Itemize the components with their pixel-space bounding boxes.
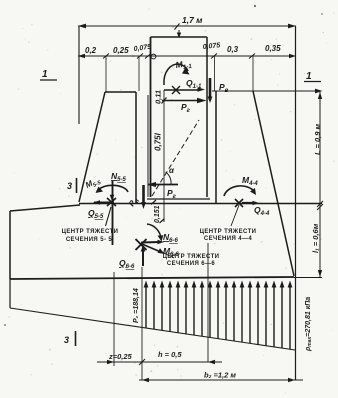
centroid axis x=164 — [163, 90, 165, 222]
right dimension vertical line — [319, 92, 321, 277]
extension 253 to right wall corner — [252, 56, 254, 91]
force Pg bottom arrow (head left) — [148, 184, 178, 186]
alpha arc — [166, 172, 172, 184]
force M6-6 diagonal arrow — [142, 244, 162, 253]
dim line b2 y=380 — [139, 379, 303, 381]
svg-text:0,3: 0,3 — [227, 45, 239, 54]
force Pv top down arrow — [209, 78, 212, 100]
moment M6-6 arc — [147, 224, 161, 239]
arrow into 208 — [208, 360, 215, 364]
svg-text:1,7 м: 1,7 м — [182, 15, 203, 25]
extension 214 to right wall — [214, 56, 216, 91]
arrow b2 left — [142, 378, 149, 382]
section mark 3 top — [67, 178, 77, 193]
dim line z h y=362 — [97, 361, 222, 363]
footing bottom edge — [10, 277, 294, 279]
right wall top / section line y=91 — [212, 90, 321, 92]
force N6-6 arrow right — [141, 241, 160, 244]
svg-text:0,75l: 0,75l — [154, 132, 163, 151]
left wall slant edge — [79, 92, 105, 202]
extension line right x=295 full height — [295, 26, 297, 380]
force Q4-4 arrow right — [242, 202, 256, 204]
extension x=114 — [113, 272, 115, 366]
svg-text:1: 1 — [306, 71, 312, 82]
svg-text:3: 3 — [64, 335, 69, 345]
svg-text:0,35: 0,35 — [265, 44, 281, 53]
force Q5-5 arrow head left — [94, 202, 114, 204]
arrow b2 right — [288, 378, 295, 382]
svg-text:0,25: 0,25 — [113, 46, 129, 55]
section 5-5 centroid X — [107, 198, 116, 206]
svg-text:3: 3 — [67, 181, 72, 191]
dim row tick 252 — [249, 54, 255, 59]
svg-text:ЦЕНТР ТЯЖЕСТИ: ЦЕНТР ТЯЖЕСТИ — [200, 229, 257, 235]
arrow bottom of right dim — [318, 270, 322, 277]
dim row arrow at 296 — [289, 54, 296, 58]
dim row tick 148 — [145, 54, 151, 59]
right wall left edge — [215, 91, 217, 203]
footing left edge — [9, 211, 11, 279]
tick 0,151 upper — [160, 219, 165, 224]
svg-text:l₁ = 0,6м: l₁ = 0,6м — [311, 223, 320, 253]
ledge to footing left — [10, 205, 80, 211]
force Pg top arrow (head right) — [162, 100, 200, 102]
section 1-1 centroid X — [172, 86, 180, 94]
svg-text:СЕЧЕНИЯ 5- 5: СЕЧЕНИЯ 5- 5 — [66, 237, 113, 243]
force Q6-6 up arrow — [142, 247, 144, 266]
moment M1-1 arc — [164, 64, 188, 85]
left wall top edge — [105, 91, 136, 93]
section mark 3 bottom — [64, 331, 76, 346]
extension line left x=79 — [78, 26, 80, 124]
pressure wedge left edge — [9, 279, 11, 308]
svg-text:L = 0,9 м: L = 0,9 м — [313, 123, 322, 155]
dimension 1,7 м tick — [175, 24, 180, 30]
stem left edge — [150, 37, 152, 197]
dim row tick 106 — [103, 54, 109, 59]
section mark 1 left — [40, 69, 57, 80]
moment M4-4 arc — [224, 186, 255, 196]
arrow at y=204 tick — [317, 201, 323, 207]
svg-text:0,11: 0,11 — [154, 90, 163, 104]
svg-text:0,151: 0,151 — [154, 205, 161, 223]
svg-text:b₂ =1,2 м: b₂ =1,2 м — [204, 371, 236, 380]
stem bottom line — [147, 198, 210, 200]
pressure arrows — [146, 284, 290, 349]
dim row arrow at 78 — [78, 54, 85, 58]
footing bottom extension to dim — [294, 277, 322, 279]
stem top edge — [151, 36, 208, 38]
force N5-5 down arrow — [112, 181, 114, 245]
dim row tick 140 — [137, 54, 143, 59]
dimension 1,7 м right arrow — [288, 24, 296, 29]
section 4-4 centroid X — [235, 199, 243, 207]
dim row tick 214 — [211, 54, 217, 59]
pressure wedge slant bottom — [10, 308, 295, 350]
leader 6-6 — [162, 252, 174, 258]
extension x=142 — [141, 267, 143, 380]
svg-text:ЦЕНТР ТЯЖЕСТИ: ЦЕНТР ТЯЖЕСТИ — [163, 254, 220, 260]
footing top long line — [79, 203, 322, 205]
force Pv bottom down arrow — [142, 185, 145, 205]
svg-text:ЦЕНТР ТЯЖЕСТИ: ЦЕНТР ТЯЖЕСТИ — [62, 229, 119, 235]
right wall slant edge — [253, 91, 294, 276]
stem top center tick — [178, 30, 180, 37]
arrow into 114 — [107, 360, 114, 364]
section 6-6 centroid X — [136, 239, 147, 250]
svg-text:0,2: 0,2 — [85, 46, 97, 55]
svg-text:h = 0,5: h = 0,5 — [158, 350, 182, 359]
extension 106 to wall corner — [105, 56, 107, 92]
svg-text:P₂ =188,14: P₂ =188,14 — [133, 288, 140, 323]
moment M5-5 arc — [97, 185, 128, 192]
leader 4-4 — [231, 205, 239, 226]
tick 0,151 lower — [151, 200, 156, 205]
dimension row y=56 line — [78, 55, 296, 57]
force Q1-1 arrow — [164, 89, 200, 91]
left wall right edge — [135, 92, 137, 203]
stem right edge — [206, 37, 208, 197]
svg-text:1: 1 — [42, 69, 48, 80]
svg-text:СЕЧЕНИЯ 4—4: СЕЧЕНИЯ 4—4 — [204, 236, 253, 242]
small circle mark under 0,075 — [151, 54, 156, 59]
arrow top of right dim — [318, 92, 322, 99]
dashed alpha line — [152, 120, 199, 196]
svg-text:ρmax=270,81 кПа: ρmax=270,81 кПа — [305, 297, 313, 352]
extension 139 gap — [138, 56, 140, 91]
tick 142 — [139, 359, 145, 365]
extension x=208 — [207, 243, 209, 362]
pressure arrow heads — [144, 281, 293, 288]
section mark 1 right — [304, 71, 321, 82]
dimension 1,7 м top line — [78, 25, 296, 27]
dimension 1,7 м left arrow — [78, 24, 86, 29]
svg-text:z=0,25: z=0,25 — [108, 352, 133, 361]
